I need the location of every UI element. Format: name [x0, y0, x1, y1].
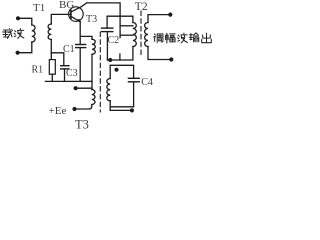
wire branch to C3 — [51, 53, 64, 65]
capacitor C1 bottom plate — [76, 47, 86, 49]
transformer T3 right winding — [107, 79, 110, 101]
wire T1 primary bottom to input bottom — [18, 42, 32, 53]
transistor BG emitter arrow — [77, 19, 82, 22]
capacitor C4 bottom plate — [128, 81, 139, 83]
svg-text:T3: T3 — [86, 14, 97, 25]
wire T2 secondary bottom to output — [148, 47, 171, 60]
transformer T3 upper left winding — [92, 39, 95, 54]
wire emitter branch to T3 left top — [80, 36, 92, 39]
text diao of output label — [154, 34, 163, 43]
wire input top to T1 primary — [18, 18, 32, 25]
transformer T1 secondary winding — [48, 24, 51, 40]
wire T3 left riser — [91, 54, 93, 89]
text bo of output label — [178, 33, 188, 43]
capacitor C3 bottom plate — [61, 68, 69, 70]
svg-text:+Ee: +Ee — [49, 105, 67, 117]
node junction dot2 — [114, 68, 118, 72]
node output bottom terminal — [169, 57, 173, 61]
wire tank top rail — [107, 16, 133, 28]
wire stub to bottom right dot — [110, 109, 132, 111]
text zai of zaibo (carrier) — [3, 29, 13, 39]
transistor BG emitter — [71, 16, 80, 21]
wire T1 secondary top to base — [51, 14, 71, 24]
capacitor C3 top plate — [61, 65, 69, 67]
transformer T2 right winding — [145, 23, 148, 47]
text shu of output label — [189, 33, 199, 42]
wire C2 bottom lead — [106, 32, 108, 60]
svg-text:C1: C1 — [63, 44, 75, 55]
svg-text:R1: R1 — [32, 64, 44, 75]
wire T1 secondary bottom to R1 — [50, 40, 52, 60]
wire C3 bottom lead — [64, 70, 66, 82]
node left mystery terminal — [74, 86, 78, 90]
node bottom right terminal — [130, 108, 134, 112]
wire T3 right bottom to C4 return — [109, 101, 111, 111]
wire collector stub to W1 — [119, 54, 121, 60]
svg-text:C3: C3 — [66, 68, 78, 79]
node junction dot1 — [108, 58, 112, 62]
svg-text:C4: C4 — [141, 77, 153, 88]
wire T2 tap upper — [120, 25, 133, 27]
transformer T2 left winding — [133, 23, 136, 47]
wire emitter down to C1 — [79, 22, 81, 45]
resistor R1 body — [49, 60, 55, 75]
node +Ec terminal — [72, 107, 76, 111]
wire T2 secondary top to output — [148, 15, 170, 23]
node output top terminal — [168, 13, 172, 17]
transistor BG collector — [71, 3, 87, 12]
text fu of output label — [166, 33, 176, 43]
capacitor C1 top plate — [76, 44, 86, 46]
transformer T1 primary winding — [32, 25, 35, 42]
wire T2 tap lower — [120, 34, 133, 36]
text chu of output label — [202, 33, 212, 43]
wire R1 bottom lead — [51, 74, 53, 81]
node input top terminal — [16, 16, 20, 20]
transformer T2 core — [140, 11, 142, 55]
wire bottom rail L1 — [45, 80, 92, 82]
wire stub from left terminal to riser — [76, 87, 92, 89]
wire C4 bottom lead — [133, 83, 135, 107]
transformer T3 lower left winding — [92, 90, 95, 105]
wire C1 bottom lead — [79, 48, 81, 81]
wire W2 T3 right top to C4 — [110, 65, 133, 78]
wire tank bottom W1 — [107, 47, 132, 61]
transistor BG circle — [69, 7, 84, 22]
svg-text:T2: T2 — [135, 1, 148, 13]
svg-text:BG: BG — [59, 0, 74, 11]
transistor BG base bar — [70, 11, 72, 19]
wire collector top rail — [87, 3, 120, 38]
svg-text:C2: C2 — [108, 35, 120, 46]
node input bottom terminal — [16, 51, 20, 55]
capacitor C4 top plate — [128, 77, 139, 79]
svg-text:T3: T3 — [75, 117, 89, 131]
wire T3 left bottom to +Ec — [75, 105, 92, 110]
svg-text:T1: T1 — [33, 2, 45, 14]
transformer T3 core — [99, 32, 101, 112]
capacitor C2 top plate — [102, 27, 113, 29]
capacitor C2 bottom plate — [102, 31, 113, 33]
text bo of zaibo (carrier) — [14, 29, 24, 39]
